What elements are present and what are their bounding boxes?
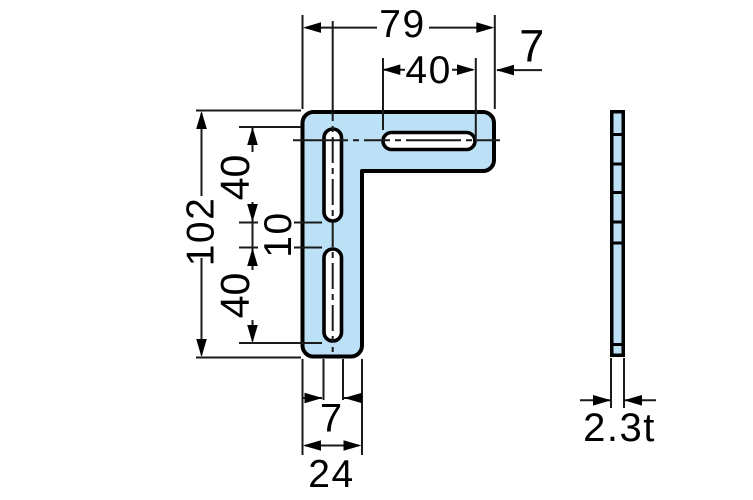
svg-text:40: 40 [405, 49, 451, 92]
svg-text:2.3t: 2.3t [583, 406, 656, 450]
svg-text:40: 40 [212, 155, 258, 201]
svg-text:102: 102 [180, 197, 223, 267]
svg-text:79: 79 [379, 3, 425, 46]
svg-text:10: 10 [257, 211, 300, 257]
svg-text:40: 40 [212, 273, 258, 319]
svg-text:7: 7 [320, 397, 344, 441]
svg-text:7: 7 [519, 21, 546, 72]
svg-text:24: 24 [308, 453, 354, 496]
